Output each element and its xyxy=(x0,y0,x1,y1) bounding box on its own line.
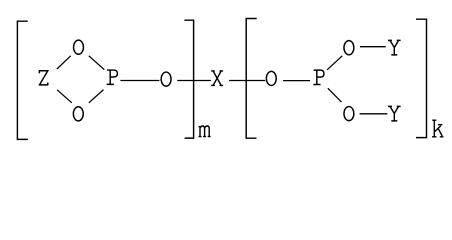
atom Z xyxy=(39,71,49,85)
bond O ring top to P1 xyxy=(89,56,105,70)
bracket left of repeat group k xyxy=(246,19,257,139)
atom O2 ester xyxy=(266,71,276,85)
atom O lower xyxy=(344,107,354,121)
bond O upper to Y upper xyxy=(360,46,386,48)
bond O ester to X xyxy=(177,80,211,82)
bracket right of repeat group m xyxy=(184,20,193,138)
bond P1 to O ester xyxy=(120,80,159,82)
atom O ring top xyxy=(74,40,84,54)
bond O ring bottom to P1 xyxy=(89,90,104,103)
atom O upper xyxy=(344,41,354,55)
atom O ester left xyxy=(161,72,171,86)
bond Z to O ring top xyxy=(57,56,71,69)
bond P2 to O upper xyxy=(327,56,342,70)
bond X to O2 xyxy=(229,80,265,82)
atom Y upper xyxy=(388,40,401,55)
bond O lower to Y lower xyxy=(360,113,388,115)
atom O ring bottom xyxy=(73,107,83,121)
subscript m xyxy=(199,126,211,137)
atom Y lower xyxy=(388,106,401,121)
bracket left of repeat group m xyxy=(17,21,28,139)
atom P2 xyxy=(313,70,324,84)
bracket right of repeat group k xyxy=(416,19,427,137)
bond P2 to O lower xyxy=(328,88,342,102)
bond O2 to P2 xyxy=(283,80,310,82)
subscript k xyxy=(432,120,444,137)
bond Z to O ring bottom xyxy=(57,90,72,103)
atom P1 xyxy=(107,70,118,84)
atom X xyxy=(211,71,223,86)
